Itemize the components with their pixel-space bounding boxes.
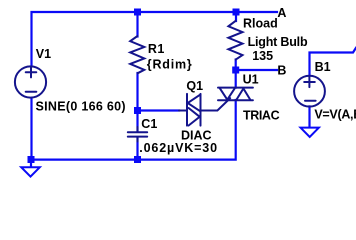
svg-text:DIAC: DIAC — [181, 128, 212, 142]
svg-text:C1: C1 — [141, 117, 157, 131]
svg-text:R1: R1 — [148, 42, 165, 56]
svg-text:{Rdim}: {Rdim} — [147, 58, 193, 72]
svg-text:.062µVK=30: .062µVK=30 — [139, 141, 218, 155]
svg-text:U1: U1 — [243, 73, 259, 87]
svg-text:Light Bulb: Light Bulb — [248, 35, 308, 49]
svg-text:V=V(A,B: V=V(A,B — [314, 108, 356, 122]
svg-text:V1: V1 — [36, 47, 51, 61]
svg-text:B: B — [277, 63, 286, 77]
svg-text:Q1: Q1 — [186, 79, 203, 93]
svg-text:A: A — [277, 6, 286, 20]
svg-text:B1: B1 — [315, 60, 331, 74]
svg-text:Rload: Rload — [243, 17, 278, 31]
svg-text:135: 135 — [252, 49, 273, 63]
svg-text:TRIAC: TRIAC — [243, 108, 280, 122]
svg-text:SINE(0 166 60): SINE(0 166 60) — [36, 100, 126, 114]
